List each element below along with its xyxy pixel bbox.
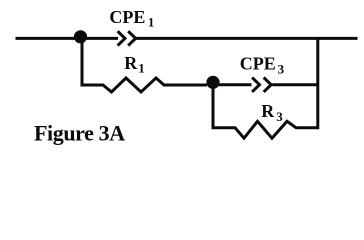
wire: R3 loop (down from node B, through resistor R3 zigzag, up right side to top rail) — [213, 38, 318, 138]
capacitor CPE1 chevron 2 — [128, 31, 135, 45]
svg-text:CPE3: CPE3 — [240, 54, 285, 77]
node B (junction dot) — [206, 76, 219, 89]
wire: main top rail left segment (input to CPE1) — [16, 37, 119, 40]
wire: main top rail right segment (CPE1 to output terminal) — [136, 37, 358, 40]
capacitor CPE3 chevron 2 — [264, 78, 271, 92]
wire: CPE3 branch left segment (node B to CPE3) — [213, 83, 252, 86]
wire: CPE3 branch right segment (CPE3 to right vertical) — [272, 83, 318, 86]
svg-text:R3: R3 — [261, 101, 283, 124]
svg-text:CPE1: CPE1 — [109, 7, 154, 30]
node A (junction dot) — [74, 30, 87, 43]
capacitor CPE3 chevron 1 — [252, 78, 259, 92]
svg-text:Figure 3A: Figure 3A — [34, 121, 125, 146]
wire: R1 branch (down from node A, through resistor R1 zigzag, to node B) — [82, 38, 207, 92]
capacitor CPE1 chevron 1 — [118, 31, 125, 45]
svg-text:R1: R1 — [124, 53, 145, 75]
